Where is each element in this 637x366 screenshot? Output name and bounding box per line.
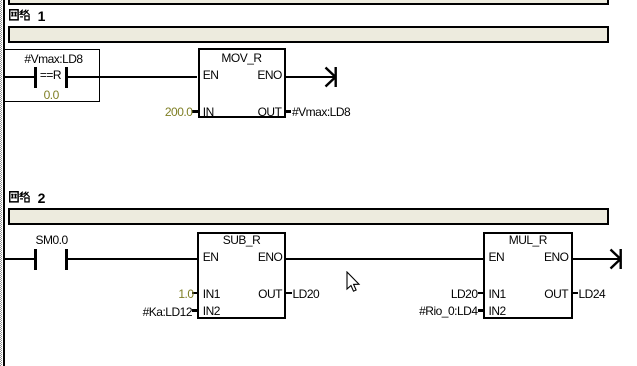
wire contact to MOV_R [68,76,198,79]
open rung arrow network 2 [607,247,624,271]
contact SM0.0 label [36,234,68,246]
tick MUL_R IN2 [478,309,484,312]
operand LD24 at MUL_R OUT [579,288,606,300]
value 1.0 [178,288,193,300]
tick SUB_R OUT [286,292,292,295]
wire SM0.0 to SUB_R [68,258,197,261]
MUL_R pin EN [489,251,505,263]
tick MUL_R IN1 [478,292,484,295]
MUL_R pin ENO [544,251,569,263]
contact left bar [34,67,37,88]
value 200.0 [165,106,193,118]
SUB_R pin IN1 [203,288,220,300]
left power rail (continuous) [3,0,5,366]
wire SUB_R to MUL_R [286,258,483,261]
selection rectangle around contact [3,49,100,102]
network 1 comment bar [8,26,609,43]
network 2 comment bar [8,208,609,225]
network 2 title "网络 2" (CJK drawn as SVG) [9,191,31,203]
MUL_R title [509,234,547,246]
SUB_R title [223,234,261,246]
MUL_R pin OUT [544,288,568,300]
tick MUL_R OUT [573,292,579,295]
MOV_R pin OUT [258,106,282,118]
SUB_R pin IN2 [203,305,220,317]
left window edge dither strip [0,0,2,366]
SUB_R pin OUT [258,288,282,300]
MOV_R title [221,52,261,64]
MOV_R box [198,48,286,118]
MUL_R pin IN1 [489,288,506,300]
operand LD20 at SUB_R OUT [293,288,320,300]
MUL_R pin IN2 [489,305,506,317]
wire MUL_R to arrow [573,258,621,261]
MOV_R pin ENO [257,69,282,81]
MOV_R pin EN [203,69,219,81]
tick IN [192,110,198,113]
MUL_R box [483,232,573,320]
MOV_R pin IN [203,106,214,118]
wire rail to contact [4,76,34,79]
SM0.0 right bar [65,249,68,270]
contact right bar [65,67,68,88]
SUB_R box [197,232,286,320]
operand #Rio_0:LD4 [419,305,477,317]
contact compare value 0.0 [44,89,59,101]
operand LD20 at MUL_R IN1 [451,288,478,300]
previous network comment bar (partial, top edge cut) [8,0,609,5]
SUB_R pin ENO [258,251,283,263]
tick IN2 [192,309,197,312]
wire rail to SM0.0 [4,258,34,261]
wire MOV_R to arrow [286,76,336,79]
SUB_R pin EN [203,251,219,263]
mouse cursor [346,271,362,294]
contact ==R text [40,69,61,81]
tick IN1 [192,292,197,295]
operand #Ka:LD12 [143,306,192,318]
tick OUT [286,110,292,113]
contact ==R label #Vmax:LD8 [24,53,82,65]
SM0.0 left bar [34,249,37,270]
operand #Vmax:LD8 at OUT [292,106,350,118]
network 1 title "网络 1" (CJK drawn as SVG) [9,9,31,21]
open rung arrow network 1 [322,65,339,89]
